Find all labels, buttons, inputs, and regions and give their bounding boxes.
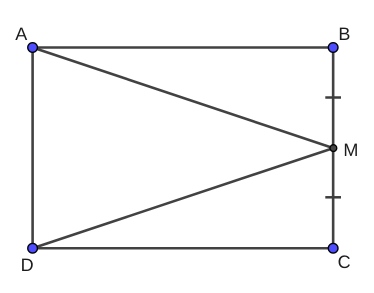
- svg-text:M: M: [343, 140, 358, 160]
- svg-text:C: C: [338, 252, 351, 272]
- svg-text:B: B: [338, 24, 350, 44]
- svg-text:A: A: [15, 24, 27, 44]
- svg-text:D: D: [21, 255, 34, 275]
